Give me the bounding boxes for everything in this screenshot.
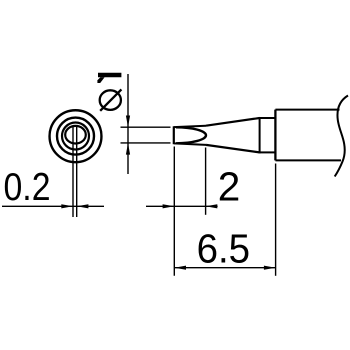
side view tip end face <box>173 126 175 144</box>
blade slot right line / 0.2 extension right <box>76 126 78 217</box>
svg-text:2: 2 <box>218 163 241 209</box>
dia1 top extension line <box>121 126 171 128</box>
side view blade top edge <box>174 126 206 127</box>
side view collar bottom edge <box>260 151 276 153</box>
svg-text:6.5: 6.5 <box>197 225 251 271</box>
side view cylinder bottom edge <box>275 159 341 161</box>
2 right extension line <box>205 148 207 215</box>
front view outer circle <box>50 110 102 162</box>
side view cone end face <box>259 117 261 153</box>
dia1 up arrow <box>126 143 130 155</box>
front view inner circle <box>62 123 89 150</box>
side view cylinder left face <box>274 110 276 161</box>
front view middle circle <box>57 118 94 155</box>
0.2 right arrow <box>77 204 89 208</box>
2 left arrow <box>163 204 175 208</box>
dia symbol slash <box>100 89 121 110</box>
front view tip ellipse <box>65 126 86 144</box>
6.5 dimension line <box>174 267 275 269</box>
dia1 label digit 1 flag (rotated) <box>97 77 104 83</box>
6.5 left arrow <box>174 266 186 270</box>
side view cone bottom edge <box>206 145 260 153</box>
side view bevel curve <box>176 127 206 143</box>
dia1 dimension line vertical <box>127 74 129 174</box>
side view cylinder top edge <box>275 109 339 111</box>
break line S-curve <box>335 96 348 177</box>
dia symbol circle <box>100 90 121 110</box>
blade slot left line / 0.2 extension left <box>72 126 74 217</box>
2 dimension line <box>146 205 218 207</box>
2 right arrow <box>206 204 218 208</box>
svg-text:0.2: 0.2 <box>4 166 51 209</box>
0.2 left arrow <box>61 204 73 208</box>
dia1 label digit 1 stem (rotated) <box>98 73 121 78</box>
6.5 right arrow <box>264 266 276 270</box>
2 and 6.5 shared left extension line <box>173 147 175 276</box>
side view blade bottom edge <box>174 143 206 145</box>
side view collar top edge <box>260 117 276 119</box>
side view cone top edge <box>206 118 260 126</box>
6.5 right extension line <box>275 164 277 276</box>
dia1 bottom extension line <box>121 142 171 144</box>
0.2 dimension line <box>2 205 104 207</box>
dia1 down arrow <box>126 116 130 128</box>
